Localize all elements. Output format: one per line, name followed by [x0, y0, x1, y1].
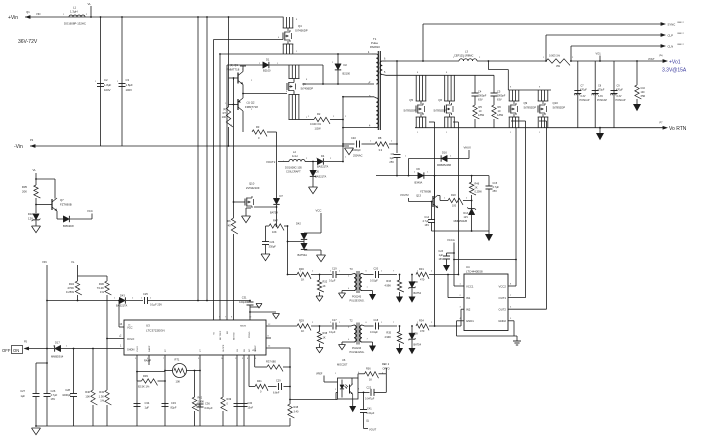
wire gnd rail — [36, 425, 290, 427]
svg-text:470µF: 470µF — [616, 89, 623, 92]
capacitor C31 — [239, 296, 262, 313]
svg-text:PGND: PGND — [249, 331, 251, 338]
resistor R41 — [249, 355, 268, 394]
wire +Vin rail — [25, 16, 284, 18]
svg-text:1000pF: 1000pF — [62, 393, 71, 397]
svg-text:3.3V@15A: 3.3V@15A — [662, 68, 687, 74]
node VAUX stub — [464, 146, 472, 159]
wire Q7 collector — [35, 178, 55, 198]
svg-text:1K: 1K — [369, 379, 372, 382]
capacitor C18 — [365, 319, 398, 334]
wire Q1 collector bar — [240, 66, 246, 72]
capacitor C24 — [262, 226, 276, 254]
wire L2 out — [305, 161, 317, 163]
svg-text:0.01µF: 0.01µF — [370, 331, 378, 334]
svg-text:100pF: 100pF — [239, 300, 247, 304]
ic U4 pin names — [466, 285, 506, 324]
svg-text:16V: 16V — [425, 224, 430, 227]
wire R2 return — [342, 97, 344, 162]
svg-text:LTC4440ES8: LTC4440ES8 — [466, 270, 483, 274]
svg-text:D42: D42 — [296, 222, 301, 226]
transistor Q1 — [227, 63, 244, 85]
opto U6 box — [337, 358, 358, 399]
svg-text:C31: C31 — [242, 296, 247, 300]
svg-text:0.25W: 0.25W — [66, 290, 74, 294]
svg-text:VL: VL — [88, 2, 92, 6]
capacitor C15 — [486, 176, 500, 231]
svg-text:C16: C16 — [641, 87, 646, 90]
svg-text:36V-72V: 36V-72V — [18, 39, 38, 45]
node VOUT stub — [364, 428, 377, 432]
diode D11 — [57, 211, 92, 228]
resistor R42 — [192, 370, 204, 426]
svg-text:C19: C19 — [332, 268, 337, 271]
ic U3 pin names rotated — [137, 330, 257, 352]
capacitor C7 POSCAP — [574, 61, 590, 128]
svg-text:15nF: 15nF — [248, 407, 254, 410]
diode D42a — [296, 222, 321, 240]
svg-text:1µF: 1µF — [439, 254, 444, 257]
svg-text:CLP: CLP — [668, 34, 674, 38]
svg-text:SBUS: SBUS — [240, 326, 246, 328]
wire U3 pgnd — [249, 311, 276, 320]
connector P1 +Vin — [8, 10, 40, 21]
resistor R39 — [138, 374, 165, 389]
svg-text:C17: C17 — [332, 319, 337, 322]
ground Vo RTN — [596, 127, 604, 140]
resistor R36b — [358, 367, 386, 381]
resistor R47 — [266, 219, 288, 235]
svg-text:VO1: VO1 — [596, 52, 602, 56]
wire opto pin2 — [316, 373, 338, 383]
capacitor C23 — [438, 250, 454, 265]
svg-text:Q7: Q7 — [60, 198, 64, 202]
svg-text:Q10: Q10 — [249, 182, 255, 186]
svg-text:VCC1: VCC1 — [466, 285, 474, 289]
svg-text:COILCRAFT: COILCRAFT — [286, 170, 301, 174]
ground C24 — [261, 254, 270, 261]
svg-text:C41: C41 — [367, 408, 372, 411]
svg-text:MMBD914: MMBD914 — [51, 355, 64, 359]
svg-text:D7: D7 — [280, 194, 284, 198]
svg-text:B0540W: B0540W — [63, 224, 74, 228]
svg-text:10K: 10K — [85, 395, 90, 399]
ground -Vin rail end — [345, 148, 354, 155]
svg-text:OPTO: OPTO — [383, 367, 390, 370]
svg-text:PG0243: PG0243 — [352, 296, 362, 299]
svg-text:DO1608P-132HC: DO1608P-132HC — [64, 22, 86, 26]
label REF2 OPTO — [382, 363, 390, 370]
wire gate bus Q6s — [453, 122, 459, 275]
wire Q9 Q10 drain rail — [508, 89, 551, 91]
wire bus Vin sense 2 — [206, 16, 208, 301]
svg-text:+Vin: +Vin — [8, 15, 18, 21]
transformer T1 label — [370, 37, 380, 49]
ground Q10 — [242, 216, 251, 223]
wire T1 lower top — [342, 96, 374, 98]
wire Vo RTN rail — [415, 127, 666, 129]
wire Vaux gnd rail — [432, 230, 490, 232]
svg-text:R49: R49 — [227, 398, 232, 401]
svg-text:4.99K: 4.99K — [384, 285, 391, 288]
svg-text:470: 470 — [420, 329, 425, 333]
svg-text:R38: R38 — [323, 332, 328, 335]
opto U6 led — [340, 380, 348, 398]
transformer T1 primary lower — [369, 95, 378, 128]
svg-text:C36: C36 — [205, 402, 210, 406]
resistor R32 — [317, 274, 327, 296]
svg-text:UVLO: UVLO — [137, 346, 139, 352]
wire VL col — [71, 260, 107, 281]
svg-text:VCCA: VCCA — [447, 238, 455, 242]
resistor R6 snubber — [492, 105, 504, 128]
svg-text:PULSE ENG.: PULSE ENG. — [350, 300, 365, 303]
resistor R8 — [375, 136, 398, 152]
svg-text:D6: D6 — [417, 167, 421, 171]
resistor R29 — [266, 319, 332, 334]
capacitor C8 POSCAP — [592, 61, 608, 128]
svg-text:(1): (1) — [223, 107, 226, 111]
svg-text:Si7456DP: Si7456DP — [295, 29, 308, 33]
svg-text:R42: R42 — [198, 397, 203, 400]
svg-text:1/2W: 1/2W — [315, 127, 322, 131]
wire FB bus upper — [287, 225, 289, 274]
svg-text:D17: D17 — [55, 341, 60, 345]
svg-text:REF 2: REF 2 — [678, 22, 685, 24]
svg-text:3W: 3W — [556, 64, 560, 68]
zener D10 — [28, 212, 41, 226]
resistor R18 — [438, 194, 472, 208]
svg-text:Si7892DP: Si7892DP — [403, 109, 416, 113]
wire D16 col — [408, 159, 410, 177]
svg-text:D16: D16 — [442, 151, 447, 155]
svg-text:16V: 16V — [439, 258, 444, 261]
svg-text:R31: R31 — [419, 267, 424, 271]
capacitor C9 POSCAP — [610, 61, 626, 128]
svg-text:2K: 2K — [475, 187, 478, 190]
svg-text:C34: C34 — [145, 401, 150, 405]
transistor Q2 — [238, 98, 258, 111]
svg-text:0.01µF: 0.01µF — [367, 412, 375, 415]
svg-text:Q4: Q4 — [298, 24, 302, 28]
svg-text:1.3µH: 1.3µH — [70, 10, 78, 14]
svg-text:REF 2: REF 2 — [678, 44, 685, 46]
diode D17 — [46, 341, 124, 359]
svg-text:470µF: 470µF — [598, 89, 605, 92]
svg-text:POSCAP: POSCAP — [616, 99, 626, 102]
svg-text:ON: ON — [13, 348, 19, 353]
svg-text:FZT690B: FZT690B — [420, 190, 431, 194]
wire FB bus lower — [266, 348, 290, 404]
diode D8 — [409, 274, 422, 297]
capacitor C40 Ycap — [343, 136, 375, 158]
svg-text:POSCAP: POSCAP — [580, 99, 590, 102]
wire Q13 base — [409, 201, 432, 203]
svg-text:D13: D13 — [463, 212, 468, 215]
capacitor C19 — [329, 268, 351, 283]
svg-text:6.3V: 6.3V — [581, 95, 586, 98]
svg-text:P2: P2 — [30, 138, 34, 142]
svg-text:-Vin: -Vin — [14, 144, 23, 150]
mosfet Q10 — [245, 182, 260, 209]
svg-text:25V: 25V — [493, 190, 498, 193]
svg-text:330pF: 330pF — [269, 245, 277, 249]
svg-text:82pF: 82pF — [171, 406, 177, 410]
svg-text:C30: C30 — [248, 402, 253, 405]
wire CLN line — [570, 46, 663, 62]
svg-text:VOUT: VOUT — [369, 428, 377, 432]
svg-text:6.3V: 6.3V — [598, 95, 603, 98]
svg-text:C4: C4 — [478, 90, 482, 94]
svg-text:BAS21TA: BAS21TA — [317, 165, 328, 169]
svg-text:3.3: 3.3 — [379, 148, 383, 152]
svg-text:D43: D43 — [120, 294, 125, 298]
wire SHDN line — [29, 348, 55, 350]
svg-text:VOUT2: VOUT2 — [266, 160, 276, 164]
svg-text:VL: VL — [33, 168, 37, 172]
capacitor C16 — [635, 60, 646, 104]
svg-text:100: 100 — [452, 205, 457, 208]
resistor R46 — [469, 176, 482, 208]
svg-text:470µF: 470µF — [580, 89, 587, 92]
svg-text:R18: R18 — [451, 194, 456, 197]
svg-text:1µF: 1µF — [20, 394, 25, 398]
svg-text:0.25W: 0.25W — [475, 191, 483, 194]
svg-text:6.8nF: 6.8nF — [273, 392, 280, 395]
capacitor C34 — [134, 401, 150, 410]
diode D7 — [270, 194, 283, 226]
ground R32 — [316, 296, 323, 301]
mosfet Q5 cluster — [403, 75, 426, 127]
svg-text:1K: 1K — [323, 337, 326, 340]
svg-text:R43: R43 — [99, 390, 104, 394]
svg-text:R40: R40 — [85, 390, 90, 394]
connector P5 ON-OFF — [2, 341, 29, 354]
svg-text:C25: C25 — [143, 292, 148, 296]
resistor R49 — [221, 355, 232, 426]
svg-text:(1) Q1: (1) Q1 — [230, 63, 238, 67]
wire +Vo rail 2 — [570, 60, 666, 62]
svg-text:VIN: VIN — [36, 12, 40, 16]
svg-text:100V: 100V — [104, 88, 111, 92]
ground T3 sec — [365, 291, 376, 301]
resistor R33 — [384, 274, 403, 297]
transformer T1 core — [378, 51, 380, 130]
resistor R35 — [22, 185, 41, 213]
svg-text:10K: 10K — [176, 380, 181, 384]
svg-text:D5: D5 — [316, 170, 320, 174]
resistor R48 — [288, 404, 299, 426]
svg-text:470: 470 — [420, 278, 425, 282]
svg-text:(1) Q2: (1) Q2 — [247, 101, 255, 105]
wire bus leg A sense — [219, 53, 221, 320]
diode D4 — [317, 154, 344, 169]
svg-text:4.7µF: 4.7µF — [51, 393, 58, 397]
svg-text:B2100: B2100 — [343, 72, 351, 76]
svg-text:Si7892DP: Si7892DP — [524, 106, 537, 110]
capacitor C29 — [268, 380, 291, 395]
svg-text:0.1µF 25V: 0.1µF 25V — [150, 303, 162, 307]
wire T1 lower bottom — [342, 127, 374, 129]
svg-text:B340A: B340A — [415, 181, 423, 185]
node VCCA — [447, 238, 464, 286]
svg-text:1/8W: 1/8W — [497, 113, 504, 117]
svg-text:(1): (1) — [366, 420, 369, 423]
wire Vin col — [42, 260, 48, 349]
svg-text:OUT2: OUT2 — [499, 308, 507, 312]
wire VCC pin — [118, 300, 124, 327]
connector P2 -Vin — [14, 138, 35, 150]
diode D6 — [415, 167, 424, 185]
wire Q7 base — [35, 204, 52, 206]
capacitor C36 — [197, 402, 214, 411]
svg-text:Vo RTN: Vo RTN — [669, 126, 687, 132]
svg-text:0.047µF: 0.047µF — [365, 397, 375, 400]
ground D8 — [409, 297, 416, 303]
transformer T1 secondary — [380, 58, 386, 76]
svg-text:RT1: RT1 — [175, 358, 180, 362]
svg-text:1/8W: 1/8W — [478, 113, 485, 117]
mosfet Q6 cluster — [287, 65, 313, 120]
ground C23 — [443, 265, 450, 271]
node VCC stub — [87, 209, 93, 219]
svg-text:3.40: 3.40 — [294, 411, 299, 414]
svg-text:U6: U6 — [342, 358, 346, 362]
svg-text:SHDN: SHDN — [127, 348, 134, 352]
connector SYNC — [661, 22, 685, 27]
diode D42b — [298, 243, 322, 257]
wire bus DRVA — [213, 40, 215, 321]
svg-text:R6: R6 — [498, 105, 502, 109]
svg-text:R35: R35 — [22, 185, 28, 189]
ground T2 pri — [339, 342, 352, 350]
capacitor C14 — [423, 201, 435, 231]
svg-text:1µF: 1µF — [145, 406, 150, 410]
svg-text:MMBZ5246B: MMBZ5246B — [437, 164, 451, 167]
svg-text:100: 100 — [641, 91, 646, 94]
svg-text:LTC3722EGN: LTC3722EGN — [146, 329, 165, 333]
svg-text:C5: C5 — [497, 90, 501, 94]
svg-text:R35: R35 — [386, 332, 391, 335]
svg-text:63V: 63V — [497, 98, 502, 102]
svg-text:VOUT2: VOUT2 — [400, 193, 409, 197]
wire bus colA — [276, 132, 278, 198]
svg-text:R32: R32 — [323, 281, 328, 284]
svg-text:Q10: Q10 — [553, 101, 559, 105]
svg-text:10K: 10K — [272, 230, 277, 234]
svg-text:MMBZ5242B: MMBZ5242B — [454, 221, 468, 223]
svg-text:Q9: Q9 — [524, 101, 528, 105]
svg-text:C6: C6 — [391, 152, 395, 156]
svg-text:6.3V: 6.3V — [617, 95, 622, 98]
wire C3 column — [121, 16, 123, 146]
capacitor C26 — [44, 349, 58, 427]
svg-text:FZT690B: FZT690B — [60, 203, 72, 207]
capacitor C30 — [241, 355, 254, 426]
ic U4 box — [464, 265, 508, 331]
svg-text:R33: R33 — [386, 280, 391, 283]
svg-text:1.3K: 1.3K — [99, 395, 105, 399]
svg-text:C14: C14 — [424, 216, 429, 219]
wire U3 pin CT — [199, 355, 201, 426]
resistor R40 — [85, 348, 97, 426]
wire Q4 gate — [214, 39, 284, 41]
svg-text:C20: C20 — [374, 268, 379, 271]
ground R33 — [396, 297, 403, 303]
wire gate bus Q10s — [539, 121, 547, 309]
wire OVLO pin — [106, 335, 124, 340]
svg-text:NC: NC — [249, 348, 251, 352]
ground C16 — [633, 104, 641, 111]
wire R39 loop — [136, 371, 165, 381]
node VL stub — [88, 2, 92, 18]
svg-text:PA0810: PA0810 — [370, 45, 380, 49]
svg-text:2.49K: 2.49K — [198, 401, 205, 404]
transformer T1 primary upper — [368, 51, 378, 84]
svg-text:Q13: Q13 — [416, 194, 421, 198]
ground R38 — [316, 348, 323, 353]
svg-text:R36: R36 — [366, 367, 371, 370]
svg-text:R3: R3 — [256, 125, 260, 129]
wire bus Vin sense — [197, 16, 199, 300]
node RAMP stub — [144, 355, 152, 365]
svg-text:BG: BG — [227, 331, 229, 334]
svg-text:C2: C2 — [104, 78, 108, 82]
svg-text:IN1: IN1 — [466, 296, 471, 300]
connector P4 +Vo1 — [648, 55, 687, 74]
svg-text:D1: D1 — [266, 58, 270, 62]
svg-text:R7: R7 — [223, 111, 227, 115]
inductor L1 — [64, 6, 86, 26]
capacitor C28 — [62, 348, 77, 426]
node VOUT2 stub — [266, 160, 289, 164]
ground T2 sec — [365, 342, 376, 352]
svg-text:Si7892DP: Si7892DP — [553, 106, 566, 110]
svg-text:0.1µF: 0.1µF — [329, 280, 336, 283]
wire OUT1 — [508, 297, 526, 299]
connector CLN — [661, 44, 685, 49]
oscillator RT1 — [165, 358, 200, 384]
svg-text:20K: 20K — [22, 190, 27, 194]
svg-text:VCC: VCC — [316, 209, 322, 213]
wire U3 pin RT — [164, 355, 166, 426]
svg-text:R48: R48 — [294, 406, 299, 409]
svg-text:250VAC: 250VAC — [353, 154, 363, 158]
opto U6 transistor — [350, 378, 353, 399]
ground D9 — [409, 348, 416, 354]
svg-text:Si7456DP: Si7456DP — [301, 87, 314, 91]
wire IN2 feed — [461, 309, 464, 326]
resistor R2 sense — [300, 112, 344, 131]
svg-text:D10: D10 — [28, 212, 34, 216]
wire C2 column — [100, 16, 102, 146]
ground Vaux — [485, 231, 493, 241]
wire gate bus Q9 — [511, 121, 526, 298]
wire bus CS — [226, 65, 228, 320]
wire Q10 gate — [233, 201, 245, 203]
svg-text:BAT54A: BAT54A — [298, 253, 308, 257]
svg-text:SYNC: SYNC — [668, 23, 676, 27]
svg-text:MOC207: MOC207 — [337, 363, 348, 367]
wire gate bus Q5 — [429, 122, 436, 327]
svg-text:VCC: VCC — [87, 209, 93, 213]
resistor R30 — [287, 267, 332, 282]
svg-text:Q5: Q5 — [409, 98, 413, 102]
svg-text:B2100: B2100 — [263, 69, 271, 73]
svg-text:Q6: Q6 — [302, 82, 306, 86]
svg-text:C27: C27 — [20, 389, 25, 393]
wire sec top rail — [386, 74, 494, 76]
